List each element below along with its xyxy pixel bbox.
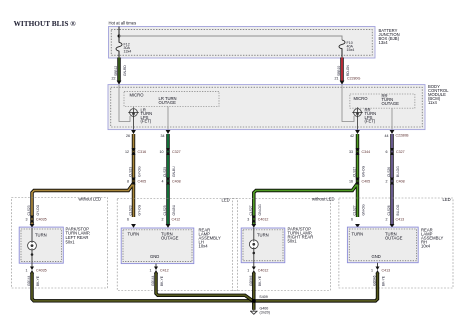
wire FET gate left [133, 107, 135, 109]
svg-text:C405: C405 [138, 180, 147, 184]
svg-text:13x4: 13x4 [124, 50, 132, 54]
svg-text:34: 34 [161, 134, 165, 138]
svg-text:OUTAGE: OUTAGE [385, 236, 403, 241]
svg-text:6: 6 [127, 218, 129, 222]
svg-text:LED: LED [222, 198, 230, 203]
wire gnd out of box D [377, 263, 379, 267]
wire SBB12 GN-RD supply to BCM pin 22 [117, 58, 120, 82]
arrow into BCM left [117, 81, 122, 85]
box B description [199, 228, 221, 249]
wire gnd out of box B [155, 264, 157, 267]
svg-text:12: 12 [125, 150, 129, 154]
node below bulb C [253, 252, 256, 255]
connector 1 C4012 [252, 267, 256, 274]
connector 1 C412 [154, 267, 158, 274]
svg-text:GN-BU: GN-BU [172, 204, 176, 215]
svg-text:C405: C405 [362, 180, 371, 184]
pin 34 exit arrow [166, 130, 171, 134]
svg-text:without LED: without LED [79, 196, 102, 201]
connector 33 C344 [356, 148, 360, 155]
svg-text:2: 2 [386, 180, 388, 184]
connector 1 C413 [376, 267, 380, 274]
svg-text:C4035: C4035 [36, 218, 47, 222]
connector 3 C4012 [252, 216, 256, 223]
wire ground from box D to S409 [254, 273, 378, 301]
wire ground from box B to S409 [156, 273, 253, 301]
pin label TURN OUTAGE (box B) [161, 231, 179, 240]
svg-text:33: 33 [349, 150, 353, 154]
svg-text:GN-RD: GN-RD [123, 65, 127, 76]
box A outer [12, 198, 108, 289]
svg-text:BK-YE: BK-YE [160, 275, 164, 286]
wire to ground G400 [252, 303, 255, 310]
arrow into lamp A [30, 224, 35, 228]
svg-text:CLS27: CLS27 [353, 167, 357, 177]
svg-text:C316: C316 [138, 150, 147, 154]
svg-text:16: 16 [349, 180, 353, 184]
svg-text:BK-YE: BK-YE [36, 275, 40, 286]
battery junction box BJB [109, 27, 376, 59]
wire below fuse F10 [341, 48, 343, 58]
svg-text:GN-OG: GN-OG [362, 165, 366, 177]
svg-text:6: 6 [386, 150, 388, 154]
svg-text:MICRO: MICRO [354, 96, 369, 101]
node S409 splice [252, 299, 256, 303]
wire inside lamp A [31, 228, 33, 267]
svg-text:C344: C344 [362, 150, 371, 154]
wire ground from lamp A to S409 [32, 273, 253, 301]
op-amp style FET driver RR TURN LPS [352, 107, 363, 118]
svg-text:50x1: 50x1 [288, 239, 298, 244]
svg-text:C413: C413 [382, 269, 391, 273]
svg-text:10: 10 [160, 150, 164, 154]
wire inside lamp C [253, 228, 255, 267]
svg-text:CLS23: CLS23 [129, 167, 133, 177]
svg-text:BU-OG: BU-OG [396, 166, 400, 177]
svg-text:OUTAGE: OUTAGE [382, 101, 400, 106]
wire FET output left inside BCM [133, 116, 135, 129]
box C outer [232, 199, 330, 291]
svg-text:RD-GN: RD-GN [346, 65, 350, 76]
label RR TURN LPS (FET) [365, 108, 377, 124]
svg-text:C412: C412 [160, 269, 169, 273]
svg-text:MICRO: MICRO [130, 93, 145, 98]
connector 2 C408 [390, 178, 394, 185]
svg-text:1: 1 [26, 269, 28, 273]
svg-text:CLS27: CLS27 [353, 205, 357, 215]
svg-text:26: 26 [126, 134, 130, 138]
micro box right [350, 94, 415, 108]
fuse F10 40A [339, 40, 345, 49]
connector 8 C405 [132, 178, 136, 185]
svg-text:BK-YE: BK-YE [382, 275, 386, 286]
svg-text:CLS26: CLS26 [387, 167, 391, 177]
svg-text:CLS27: CLS27 [249, 205, 253, 215]
svg-text:6: 6 [351, 218, 353, 222]
fuse F12 30A [116, 42, 122, 51]
svg-text:13x4: 13x4 [379, 40, 389, 45]
svg-text:42: 42 [350, 134, 354, 138]
svg-text:21: 21 [335, 77, 339, 81]
pin label TURN OUTAGE (box D) [385, 231, 403, 240]
body control module BCM [108, 85, 425, 130]
svg-text:C408: C408 [172, 180, 181, 184]
svg-text:C413: C413 [396, 218, 405, 222]
svg-text:SBB12: SBB12 [114, 66, 118, 76]
connector 3 C4035 [30, 216, 34, 223]
box B outer [117, 199, 237, 291]
connector 12 C316 [132, 148, 136, 155]
svg-text:3: 3 [247, 218, 249, 222]
svg-text:10x4: 10x4 [421, 244, 431, 249]
wire battery feed into BJB [118, 27, 120, 43]
svg-text:1: 1 [150, 269, 152, 273]
svg-text:CLS25: CLS25 [163, 167, 167, 177]
bulb left rear turn lamp [28, 241, 37, 250]
svg-text:50x1: 50x1 [66, 240, 76, 245]
box C inner lamp body [241, 228, 285, 263]
svg-text:GND: GND [372, 254, 381, 259]
svg-text:C327: C327 [396, 150, 405, 154]
pin 42 exit arrow [355, 130, 360, 134]
svg-text:C4035: C4035 [36, 269, 47, 273]
svg-text:44: 44 [385, 134, 389, 138]
node below bulb A [31, 253, 34, 256]
svg-text:BU-OG: BU-OG [396, 204, 400, 215]
label LR TURN LPS (FET) [141, 108, 153, 124]
box A inner lamp body [19, 227, 63, 263]
svg-text:OUTAGE: OUTAGE [159, 100, 177, 105]
box D inner module body [347, 227, 418, 263]
wire CLS26 BU-OG turn outage RH [390, 134, 393, 225]
wire RR outage sense inside BCM [391, 108, 393, 130]
arrow into box D outage [390, 224, 395, 228]
connector 1 C4035 [30, 267, 34, 274]
svg-text:15x4: 15x4 [347, 48, 355, 52]
micro box left [124, 91, 219, 106]
svg-text:TURN: TURN [352, 232, 364, 237]
svg-text:GND: GND [150, 254, 159, 259]
svg-text:CLS23: CLS23 [129, 205, 133, 215]
wire LR outage sense inside BCM [167, 107, 169, 130]
box D description [421, 228, 443, 249]
svg-text:GY-OG: GY-OG [138, 166, 142, 177]
svg-text:GY-OG: GY-OG [36, 204, 40, 215]
arrow into box D turn [355, 224, 360, 228]
svg-text:11x4: 11x4 [428, 100, 437, 105]
svg-text:without LED: without LED [312, 196, 335, 201]
svg-text:TURN: TURN [35, 233, 47, 238]
wire ground from lamp C to S409 [252, 273, 255, 304]
svg-text:8: 8 [127, 180, 129, 184]
svg-text:C4012: C4012 [258, 269, 269, 273]
svg-text:1: 1 [247, 269, 249, 273]
svg-text:CLS25: CLS25 [163, 205, 167, 215]
svg-text:2: 2 [386, 218, 388, 222]
arrow into lamp C [251, 224, 256, 228]
svg-text:C2280G: C2280G [347, 77, 361, 81]
wire below fuse F12 [118, 51, 120, 58]
ground G400 [250, 310, 258, 315]
wire BCM internal supply left [119, 85, 130, 122]
svg-text:C2280B: C2280B [396, 134, 410, 138]
svg-text:S409: S409 [259, 295, 267, 299]
svg-text:GN-BU: GN-BU [172, 166, 176, 177]
svg-text:TURN: TURN [128, 232, 140, 237]
wire FET gate right [357, 107, 359, 110]
svg-text:Hot at all times: Hot at all times [109, 21, 137, 26]
wire SBB10 RD supply to BCM pin 21 [340, 58, 343, 82]
svg-text:(FET): (FET) [141, 119, 152, 124]
svg-text:4: 4 [162, 180, 164, 184]
wire CLS27 GN-OG right rear turn feed [254, 134, 358, 225]
svg-text:C4012: C4012 [258, 218, 269, 222]
wire CLS25 GN-BU turn outage LH [166, 134, 169, 225]
svg-text:GN-OG: GN-OG [362, 204, 366, 216]
svg-text:22: 22 [112, 77, 116, 81]
svg-text:SBB10: SBB10 [337, 66, 341, 76]
wire BJB internal bus [119, 36, 342, 40]
node BJB bus junction [118, 35, 121, 38]
pin 26 exit arrow [131, 130, 136, 134]
svg-text:2: 2 [162, 218, 164, 222]
svg-text:(3n20): (3n20) [260, 311, 270, 315]
box D outer [339, 198, 453, 288]
box A description [66, 226, 91, 244]
label LR TURN OUTAGE [159, 96, 177, 105]
svg-text:OUTAGE: OUTAGE [161, 236, 179, 241]
arrow into box B outage [166, 224, 171, 228]
svg-text:CLS26: CLS26 [387, 205, 391, 215]
wire CLS23 GY-OG left rear turn feed [32, 134, 134, 225]
svg-text:BK-YE: BK-YE [258, 275, 262, 286]
label RR TURN OUTAGE [382, 94, 400, 106]
svg-text:WITHOUT BLIS ®: WITHOUT BLIS ® [14, 19, 77, 28]
svg-text:CLS23: CLS23 [27, 205, 31, 215]
connector 4 C408 [166, 178, 170, 185]
BJB label [379, 28, 400, 45]
svg-text:LED: LED [443, 197, 451, 202]
box C description [288, 227, 314, 244]
svg-text:C327: C327 [172, 150, 181, 154]
svg-text:10x4: 10x4 [199, 244, 209, 249]
svg-text:(FET): (FET) [365, 119, 376, 124]
arrow into box B turn [131, 224, 136, 228]
connector 10 C327 [166, 148, 170, 155]
arrow into BCM right [340, 81, 345, 85]
wire FET output right inside BCM [357, 116, 359, 129]
wire BCM internal supply right [342, 85, 354, 122]
svg-text:C408: C408 [396, 180, 405, 184]
bulb right rear turn lamp [249, 240, 258, 249]
svg-text:1: 1 [371, 269, 373, 273]
connector 16 C405 [356, 178, 360, 185]
svg-text:C412: C412 [172, 218, 181, 222]
BCM label [428, 84, 449, 105]
pin 44 exit arrow + connector C2280B [390, 130, 395, 134]
svg-text:GN-OG: GN-OG [258, 204, 262, 216]
box B inner module body [121, 228, 194, 264]
connector 6 C327 [390, 148, 394, 155]
op-amp style FET driver LR TURN LPS [128, 107, 139, 118]
svg-text:3: 3 [26, 218, 28, 222]
svg-text:GY-OG: GY-OG [138, 204, 142, 215]
svg-text:TURN: TURN [257, 233, 269, 238]
